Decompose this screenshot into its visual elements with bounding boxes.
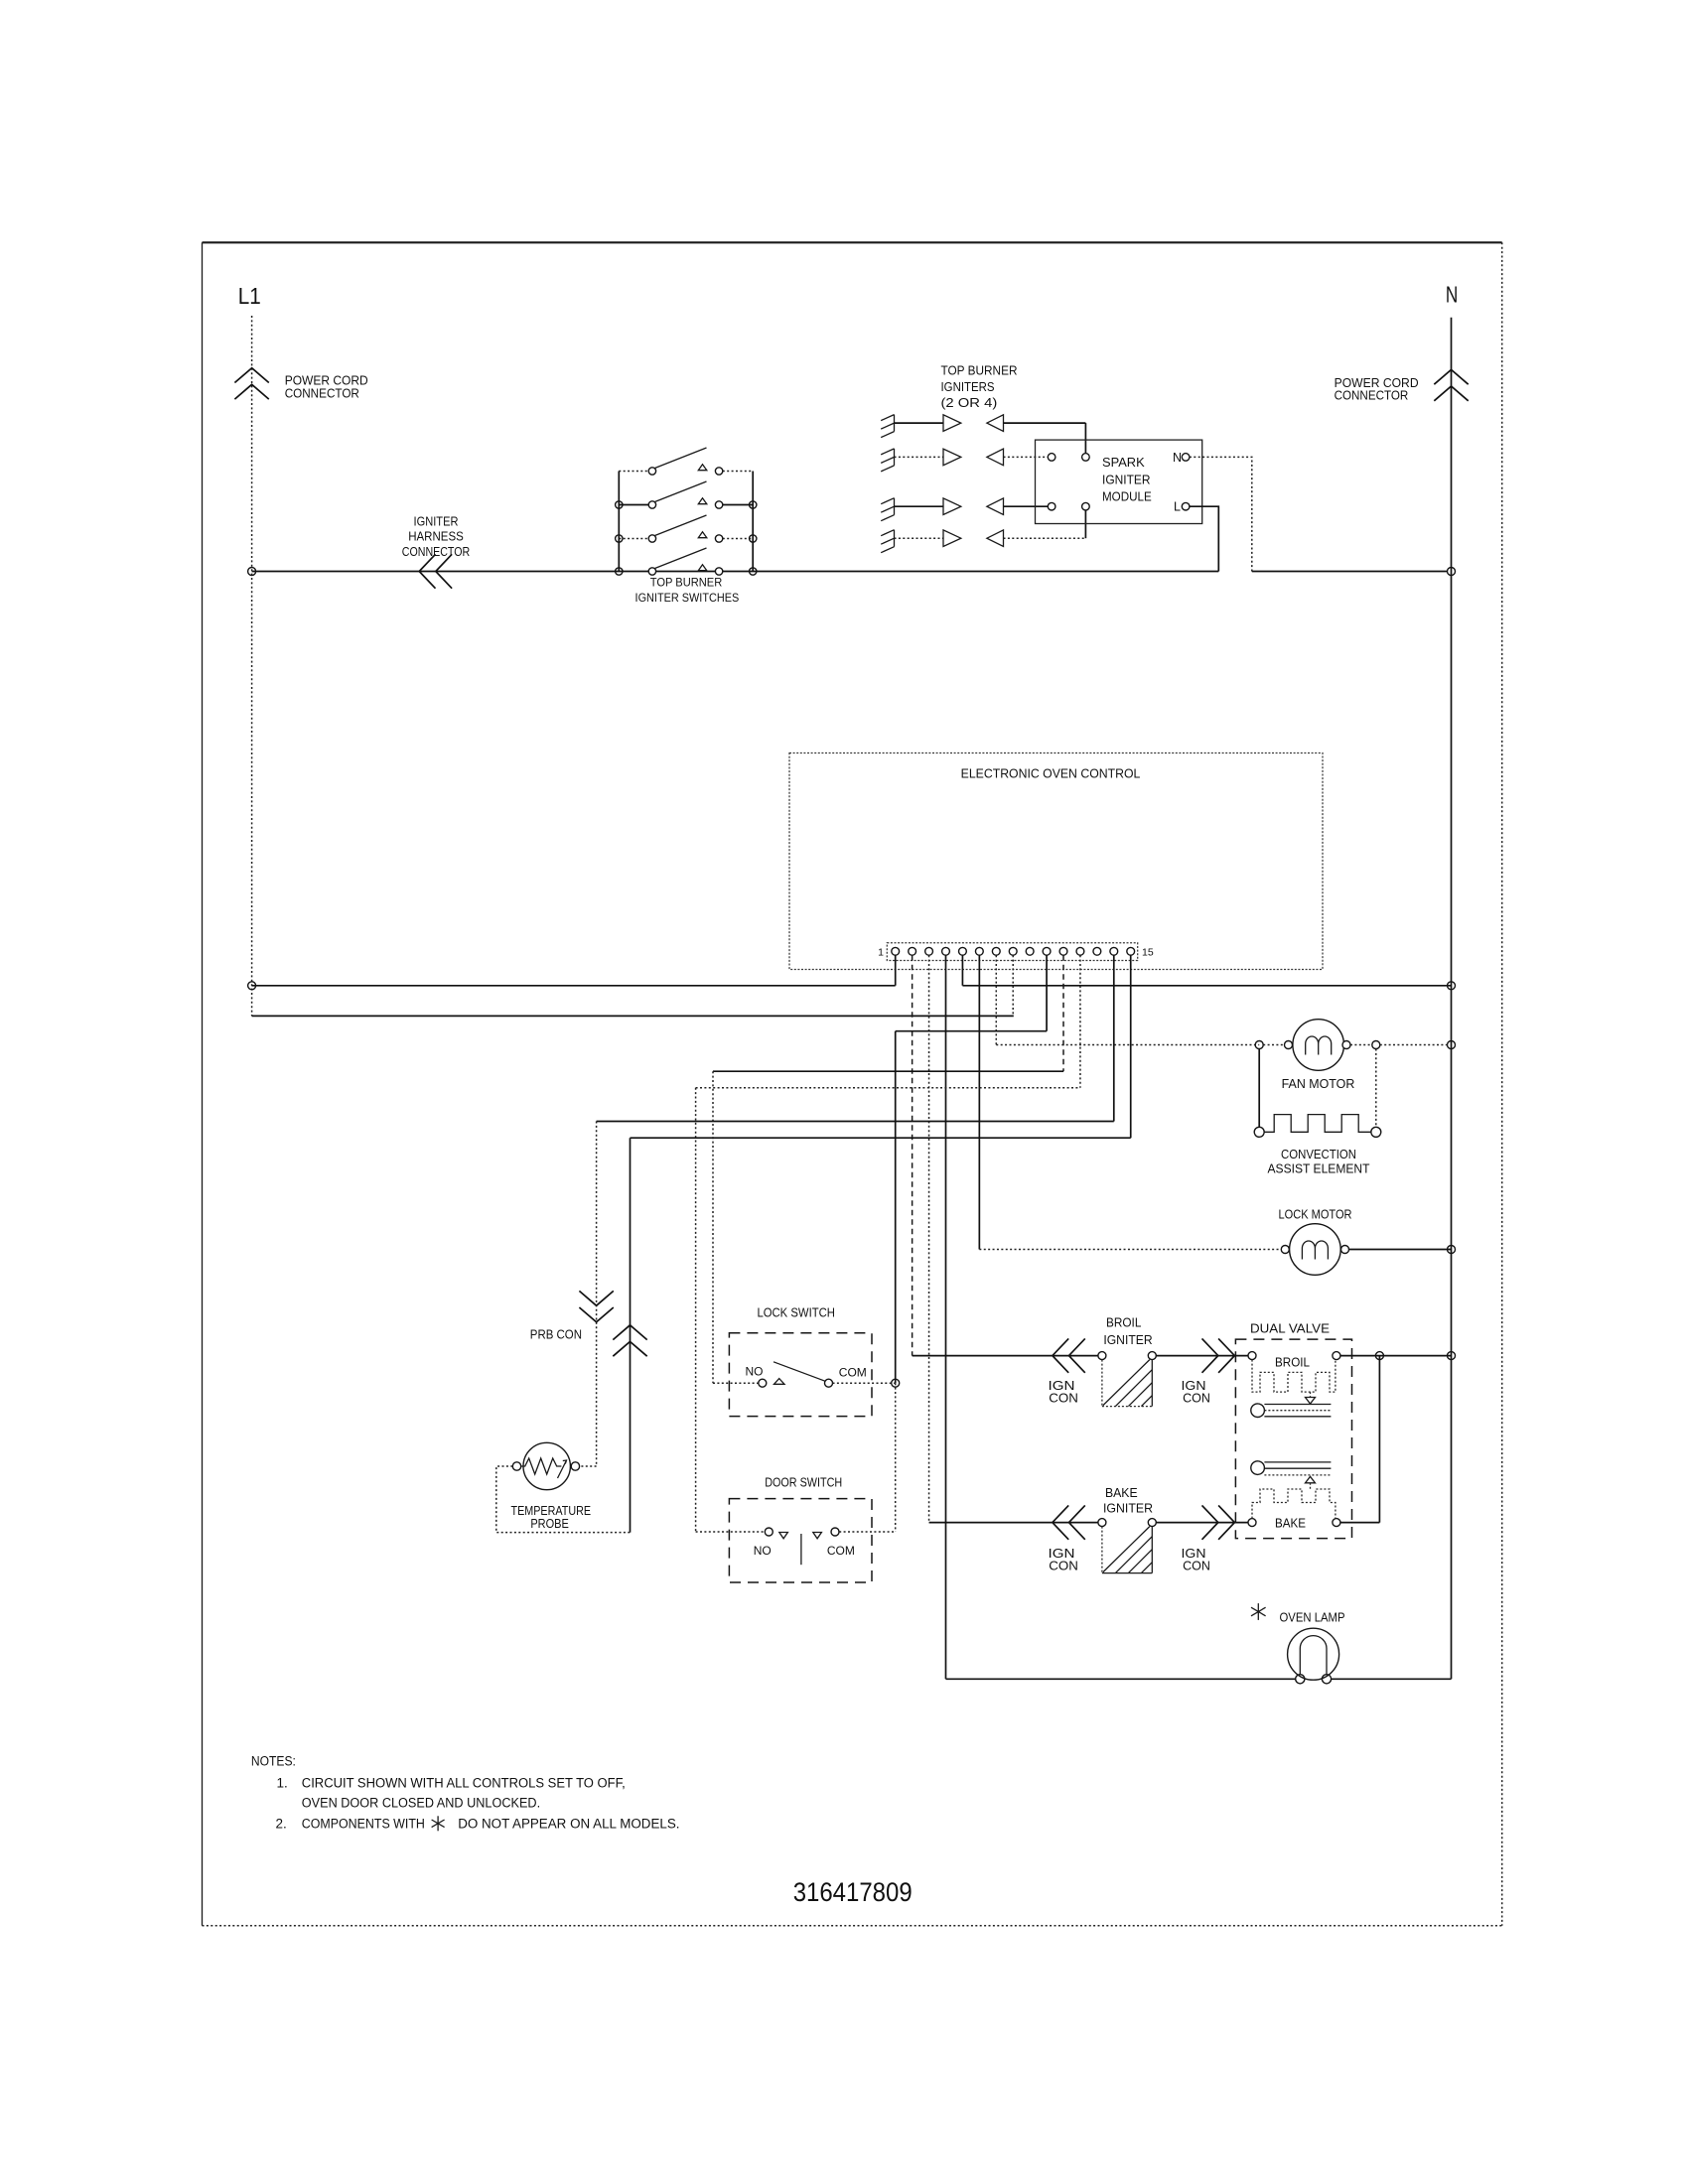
- svg-text:CON: CON: [1049, 1391, 1078, 1405]
- svg-text:L: L: [1174, 500, 1181, 514]
- svg-text:OVEN LAMP: OVEN LAMP: [1280, 1611, 1345, 1625]
- svg-text:LOCK SWITCH: LOCK SWITCH: [757, 1306, 835, 1320]
- svg-text:IGNITER: IGNITER: [414, 515, 459, 529]
- svg-text:CON: CON: [1183, 1560, 1210, 1573]
- svg-text:SPARK: SPARK: [1102, 455, 1145, 470]
- svg-text:IGNITER: IGNITER: [1103, 1333, 1152, 1347]
- svg-text:COM: COM: [839, 1366, 867, 1380]
- svg-text:2.: 2.: [276, 1817, 287, 1832]
- svg-text:MODULE: MODULE: [1102, 489, 1152, 504]
- svg-text:L1: L1: [238, 283, 261, 309]
- svg-text:CONNECTOR: CONNECTOR: [285, 387, 359, 401]
- svg-text:FAN MOTOR: FAN MOTOR: [1282, 1077, 1355, 1091]
- svg-text:BROIL: BROIL: [1106, 1316, 1141, 1330]
- svg-text:TOP BURNER: TOP BURNER: [650, 576, 723, 590]
- svg-text:PRB CON: PRB CON: [530, 1328, 582, 1342]
- svg-text:CON: CON: [1183, 1391, 1210, 1405]
- svg-text:BAKE: BAKE: [1275, 1517, 1306, 1531]
- svg-text:CONNECTOR: CONNECTOR: [402, 545, 470, 559]
- svg-text:OVEN DOOR CLOSED AND UNLOCKED.: OVEN DOOR CLOSED AND UNLOCKED.: [302, 1795, 540, 1810]
- svg-text:IGNITER: IGNITER: [1103, 1501, 1153, 1515]
- svg-text:TEMPERATURE: TEMPERATURE: [511, 1504, 592, 1518]
- svg-text:DUAL VALVE: DUAL VALVE: [1250, 1321, 1330, 1335]
- svg-text:CONVECTION: CONVECTION: [1281, 1148, 1356, 1161]
- svg-text:N: N: [1173, 451, 1182, 465]
- svg-text:CONNECTOR: CONNECTOR: [1335, 389, 1409, 403]
- svg-text:HARNESS: HARNESS: [408, 530, 464, 544]
- svg-text:TOP BURNER: TOP BURNER: [941, 364, 1018, 378]
- svg-text:CIRCUIT SHOWN WITH ALL CONTROL: CIRCUIT SHOWN WITH ALL CONTROLS SET TO O…: [302, 1776, 626, 1791]
- svg-text:BROIL: BROIL: [1275, 1356, 1310, 1370]
- svg-text:1: 1: [878, 947, 884, 959]
- svg-text:NO: NO: [746, 1365, 764, 1379]
- svg-text:ASSIST ELEMENT: ASSIST ELEMENT: [1268, 1162, 1370, 1176]
- svg-text:NOTES:: NOTES:: [251, 1754, 296, 1769]
- svg-text:NO: NO: [754, 1544, 772, 1558]
- svg-text:COM: COM: [827, 1544, 855, 1558]
- svg-text:316417809: 316417809: [793, 1877, 913, 1907]
- svg-text:DO NOT APPEAR ON ALL MODELS.: DO NOT APPEAR ON ALL MODELS.: [458, 1817, 679, 1832]
- svg-text:POWER CORD: POWER CORD: [285, 373, 368, 387]
- svg-text:ELECTRONIC OVEN CONTROL: ELECTRONIC OVEN CONTROL: [961, 767, 1141, 781]
- svg-text:IGNITERS: IGNITERS: [941, 380, 995, 394]
- svg-text:LOCK MOTOR: LOCK MOTOR: [1279, 1207, 1352, 1221]
- svg-text:CON: CON: [1049, 1560, 1078, 1573]
- svg-text:(2 OR 4): (2 OR 4): [941, 396, 998, 410]
- svg-text:DOOR SWITCH: DOOR SWITCH: [765, 1476, 842, 1490]
- svg-text:COMPONENTS WITH: COMPONENTS WITH: [302, 1817, 425, 1832]
- svg-text:PROBE: PROBE: [530, 1517, 569, 1531]
- svg-text:N: N: [1446, 281, 1458, 307]
- svg-text:IGNITER: IGNITER: [1102, 473, 1151, 487]
- svg-text:15: 15: [1142, 947, 1154, 959]
- svg-text:BAKE: BAKE: [1105, 1486, 1138, 1500]
- svg-text:IGNITER SWITCHES: IGNITER SWITCHES: [635, 591, 740, 605]
- svg-text:1.: 1.: [277, 1776, 288, 1791]
